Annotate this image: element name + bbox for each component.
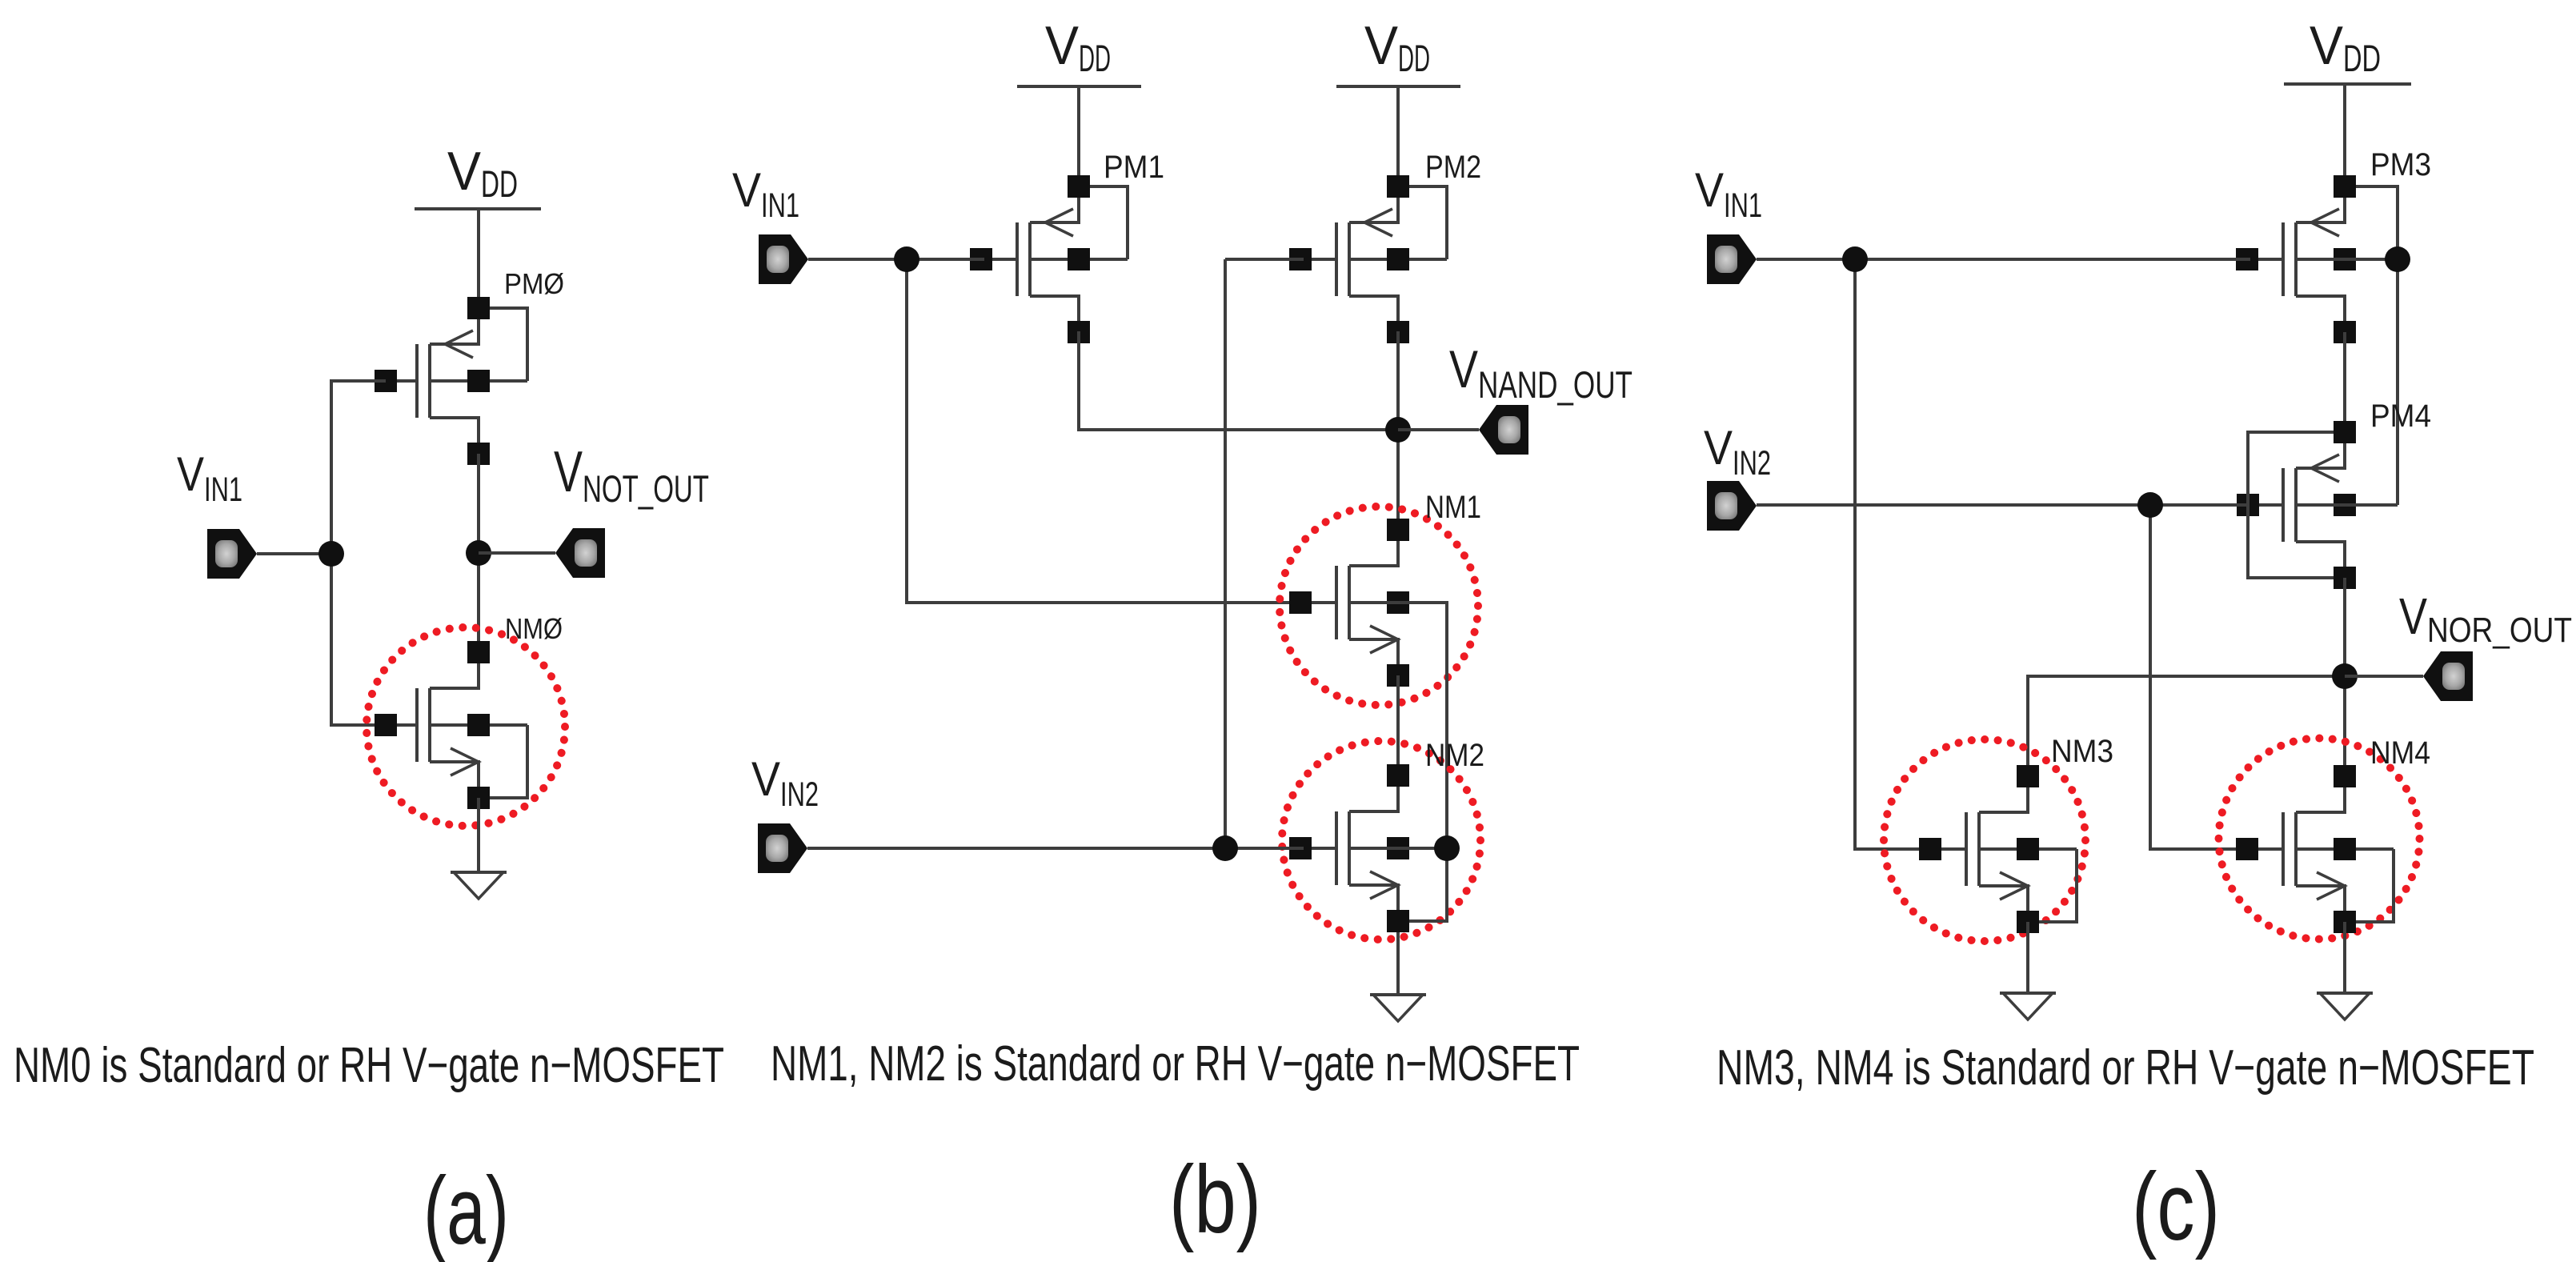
power rail VDD (circuit c): [2284, 82, 2411, 86]
output pad VNOR_OUT: [2423, 651, 2473, 701]
wire input node down to NM0 gate: [331, 554, 386, 725]
label VDD left (circuit b): [1045, 15, 1111, 79]
svg-text:(c): (c): [2132, 1153, 2220, 1260]
label VDD (circuit a): [447, 141, 518, 205]
label VIN1 (circuit c): [1695, 163, 1762, 225]
red circle around NM2: [1282, 741, 1480, 939]
svg-text:V: V: [447, 141, 482, 202]
node VIN2 (circuit b): [1212, 835, 1238, 861]
label (a): [423, 1157, 509, 1262]
input pad VIN1 (circuit b): [759, 234, 808, 284]
wire VDD rail to PM1 source: [1077, 86, 1080, 186]
transistor NM0 (n-MOSFET): [375, 641, 527, 809]
ground below NM3: [2000, 993, 2056, 1020]
label PM0: [504, 267, 564, 300]
node VIN1 (circuit a): [318, 541, 344, 567]
node NM2 bulk: [1434, 835, 1460, 861]
input pad VIN1 (circuit c): [1707, 234, 1757, 284]
label VNOT_OUT: [554, 440, 709, 510]
label PM4: [2370, 399, 2431, 434]
svg-text:IN1: IN1: [204, 471, 242, 509]
transistor NM1 (n-MOSFET): [1289, 519, 1447, 687]
svg-text:DD: DD: [1398, 37, 1430, 79]
svg-text:V: V: [2399, 587, 2427, 645]
wire NM1 bulk down to NM2 bulk node: [1349, 603, 1447, 848]
caption circuit b: [771, 1036, 1580, 1092]
output pad VNAND_OUT: [1479, 405, 1528, 455]
svg-text:V: V: [1449, 339, 1478, 399]
transistor NM3 (n-MOSFET): [1919, 765, 2077, 933]
svg-text:NAND_OUT: NAND_OUT: [1478, 363, 1633, 406]
label NM4: [2370, 735, 2430, 771]
wire PM3 bulk node down to PM4 bulk: [2396, 259, 2399, 505]
wire VIN1 pad to PM1 gate: [808, 258, 984, 261]
node PM3 bulk: [2385, 246, 2410, 272]
wire VDD rail to PM0 source: [477, 209, 480, 308]
wire PM2 gate to VIN2 line: [1225, 258, 1304, 261]
wire PM3 bulk node up to source: [2296, 186, 2398, 259]
svg-text:IN1: IN1: [761, 186, 799, 225]
wire PM3 drain to PM4 source: [2343, 332, 2346, 432]
power rail VDD (circuit a): [415, 207, 541, 210]
svg-text:V: V: [1695, 163, 1724, 217]
label VIN1 (circuit b): [732, 163, 799, 225]
red circle around NM3: [1884, 739, 2085, 941]
label NM2: [1425, 738, 1484, 773]
wire PM2 drain down through NAND node to NM1 drain: [1396, 331, 1400, 530]
transistor PM1 (p-MOSFET): [970, 175, 1128, 343]
red circle around NM4: [2219, 739, 2420, 939]
label (c): [2132, 1153, 2220, 1260]
svg-text:NM2: NM2: [1425, 738, 1484, 773]
label PM3: [2370, 147, 2431, 182]
svg-text:V: V: [1364, 15, 1399, 76]
wire NOR node to output pad: [2345, 675, 2423, 678]
label VDD right (circuit b): [1364, 15, 1430, 79]
svg-text:NM0 is Standard or RH V−gate n: NM0 is Standard or RH V−gate n−MOSFET: [14, 1038, 724, 1093]
svg-text:NM3, NM4 is Standard or RH V−g: NM3, NM4 is Standard or RH V−gate n−MOSF…: [1717, 1040, 2534, 1096]
wire NM4 source to ground: [2343, 922, 2346, 993]
node VIN2 (circuit c): [2137, 492, 2163, 518]
svg-text:(a): (a): [423, 1157, 509, 1262]
label VNAND_OUT: [1449, 339, 1633, 406]
svg-text:V: V: [177, 447, 204, 501]
svg-text:DD: DD: [1079, 37, 1111, 79]
red circle around NM1: [1280, 507, 1478, 705]
label NM3: [2051, 734, 2113, 769]
svg-text:V: V: [1045, 15, 1080, 76]
svg-text:NM1: NM1: [1425, 490, 1481, 525]
node VIN1 (circuit b): [894, 246, 919, 272]
svg-text:IN2: IN2: [1733, 444, 1771, 483]
label NM1: [1425, 490, 1481, 525]
wire PM4 bulk to PM3 bulk line: [2296, 503, 2398, 507]
svg-text:V: V: [1704, 421, 1733, 475]
svg-text:IN2: IN2: [780, 775, 819, 814]
svg-text:IN1: IN1: [1724, 186, 1762, 225]
wire VIN1 pad to PM3 gate: [1757, 258, 2250, 261]
red circle around NM0: [367, 627, 565, 826]
node VIN1 (circuit c): [1842, 246, 1868, 272]
wire PM4 gate frame to source and drain: [2248, 432, 2334, 578]
label VIN2 (circuit b): [751, 752, 819, 814]
wire NAND node to output pad: [1398, 428, 1479, 431]
wire NOR node left and down to NM3 drain: [2028, 676, 2345, 776]
svg-text:NM1, NM2 is Standard or RH V−g: NM1, NM2 is Standard or RH V−gate n−MOSF…: [771, 1036, 1580, 1092]
wire PM1 drain to NAND output node: [1079, 331, 1398, 430]
output pad VNOT_OUT: [555, 528, 605, 578]
svg-text:NMØ: NMØ: [505, 612, 563, 645]
wire VIN2 pad to PM4 gate: [1757, 503, 2248, 507]
svg-text:V: V: [554, 440, 583, 504]
label NM0: [505, 612, 563, 645]
label VNOR_OUT: [2399, 587, 2572, 650]
caption circuit a: [14, 1038, 724, 1093]
svg-text:V: V: [732, 163, 761, 217]
caption circuit c: [1717, 1040, 2534, 1096]
wire NM0 source to ground: [477, 798, 480, 872]
wire PM0 drain to output node and NM0 drain: [477, 454, 480, 652]
wire VIN2 line down to VIN2 node: [1224, 259, 1227, 848]
svg-text:PM2: PM2: [1425, 150, 1481, 185]
input pad VIN2 (circuit b): [758, 823, 807, 873]
ground (circuit b): [1370, 995, 1426, 1021]
wire NM1 source to NM2 drain: [1396, 675, 1400, 775]
svg-text:V: V: [2310, 15, 2344, 76]
svg-text:(b): (b): [1169, 1146, 1261, 1253]
svg-text:PM3: PM3: [2370, 147, 2431, 182]
label PM1: [1104, 150, 1164, 185]
wire NM2 bulk node to NM2 source: [1349, 848, 1447, 921]
svg-text:NM4: NM4: [2370, 735, 2430, 771]
svg-text:V: V: [751, 752, 780, 806]
ground (circuit a): [451, 872, 507, 899]
wire VIN2 pad to NM2 gate: [807, 847, 1304, 850]
svg-text:DD: DD: [481, 162, 518, 205]
node VNOR_OUT: [2332, 663, 2358, 689]
wire input node up to PM0 gate: [331, 381, 386, 554]
svg-text:PMØ: PMØ: [504, 267, 564, 300]
input pad VIN1 (circuit a): [207, 529, 257, 579]
transistor PM3 (p-MOSFET): [2236, 175, 2394, 343]
power rail VDD right (circuit b): [1336, 85, 1460, 88]
wire PM4 drain down through NOR node to NM4 drain: [2343, 578, 2346, 776]
node VNAND_OUT: [1385, 417, 1411, 443]
ground below NM4: [2317, 993, 2373, 1020]
svg-text:NOT_OUT: NOT_OUT: [583, 467, 709, 510]
wire VDD rail to PM2 source: [1396, 86, 1400, 186]
transistor PM4 (p-MOSFET): [2237, 421, 2394, 589]
svg-text:NM3: NM3: [2051, 734, 2113, 769]
svg-text:PM1: PM1: [1104, 150, 1164, 185]
wire VIN1 node down and right to NM3 gate: [1855, 259, 1930, 849]
wire NM2 source to ground: [1396, 932, 1400, 995]
node VNOT_OUT: [466, 540, 491, 566]
wire VIN2 node down and right to NM4 gate: [2150, 505, 2247, 849]
label VIN1 (circuit a): [177, 447, 242, 509]
wire VDD rail to PM3 source: [2343, 84, 2346, 186]
wire NM3 source to ground: [2026, 922, 2029, 993]
wire VIN1 pad to input node: [257, 552, 331, 555]
svg-text:NOR_OUT: NOR_OUT: [2427, 611, 2572, 650]
transistor PM2 (p-MOSFET): [1289, 175, 1447, 343]
label VIN2 (circuit c): [1704, 421, 1771, 483]
svg-text:DD: DD: [2343, 37, 2381, 79]
wire output node to VNOT_OUT pad: [479, 551, 555, 555]
input pad VIN2 (circuit c): [1707, 481, 1757, 531]
label VDD (circuit c): [2310, 15, 2381, 79]
power rail VDD left (circuit b): [1017, 85, 1141, 88]
svg-text:PM4: PM4: [2370, 399, 2431, 434]
label PM2: [1425, 150, 1481, 185]
wire VIN1 node down and right to NM1 gate: [907, 259, 1304, 603]
transistor NM2 (n-MOSFET): [1289, 764, 1447, 932]
transistor NM4 (n-MOSFET): [2236, 765, 2394, 933]
transistor PM0 (p-MOSFET): [375, 297, 527, 465]
label (b): [1169, 1146, 1261, 1253]
